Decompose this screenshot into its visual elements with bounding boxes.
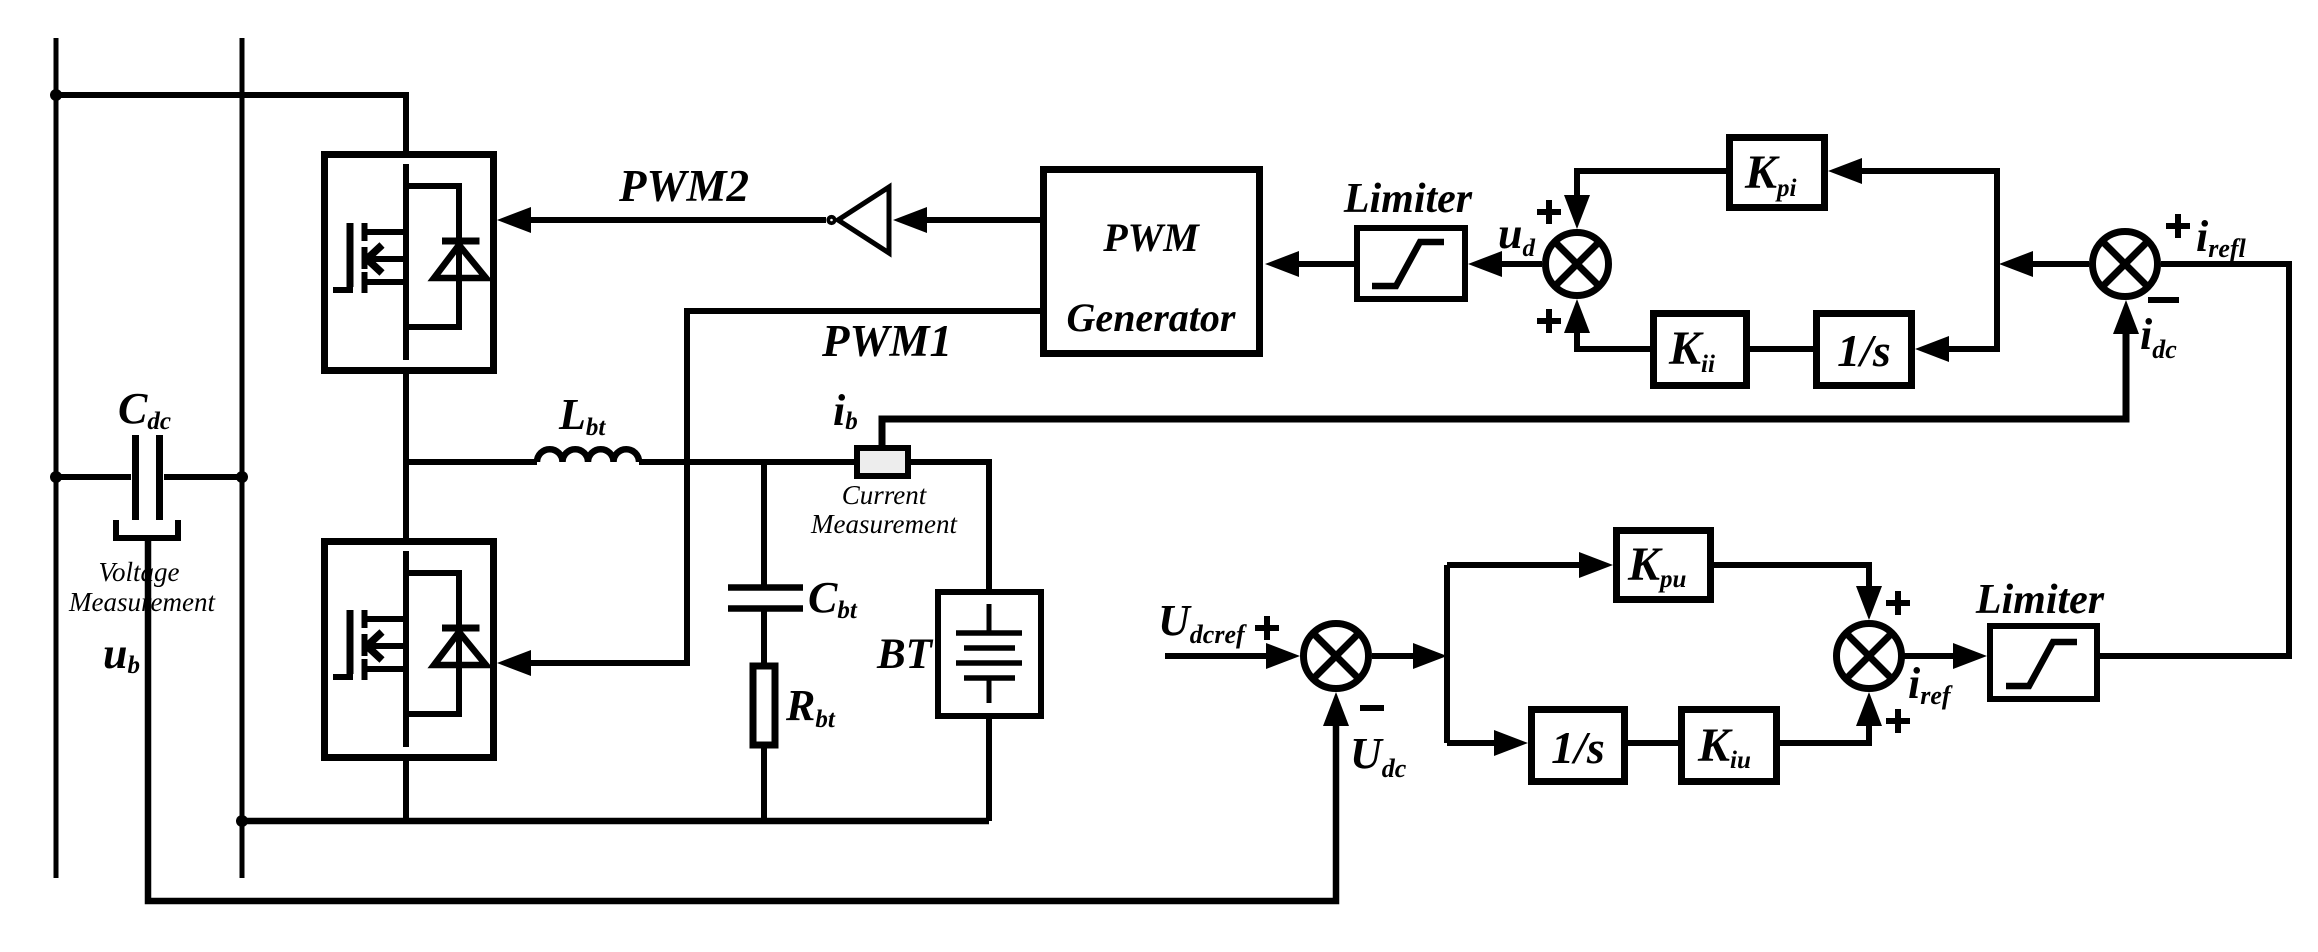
arrow iref into limiter2: [1953, 643, 1987, 669]
label minus S3: [1360, 705, 1384, 711]
wire Kiu to S4 bottom: [1780, 726, 1869, 743]
wire Udcref input: [1165, 653, 1266, 659]
wire Q1 source to Q2 drain: [403, 374, 409, 538]
svg-text:Limiter: Limiter: [1343, 176, 1473, 222]
wire Rbt to rail: [761, 748, 767, 821]
limiter1 saturation curve: [1372, 242, 1444, 286]
wire sensor to battery: [911, 462, 989, 589]
arrow into S1 top: [1564, 195, 1590, 229]
wire ib sensor tap: [882, 334, 2126, 445]
svg-text:Generator: Generator: [1067, 295, 1236, 340]
svg-text:BT: BT: [876, 631, 934, 678]
resistor Rbt: [753, 666, 775, 745]
svg-text:Measurement: Measurement: [810, 509, 958, 539]
svg-text:Measurement: Measurement: [68, 587, 216, 617]
voltage measurement probe symbol: [116, 520, 178, 538]
wire PWM1 from generator to Q2 gate: [531, 311, 1040, 663]
wire DC bus negative (second vertical): [240, 38, 245, 878]
arrow into inverter: [893, 207, 927, 233]
arrow S2 output into junction: [1999, 251, 2033, 277]
current measurement sensor ib: [857, 448, 908, 476]
arrow idc into summing junction S2: [2113, 300, 2139, 334]
wire S3 output to branch: [1372, 653, 1413, 659]
svg-text:1/s: 1/s: [1551, 722, 1605, 773]
wire PWM2 line: [531, 217, 826, 223]
inverter bubble: [828, 217, 834, 223]
wire irefl from limiter2 up to S2: [2100, 264, 2289, 656]
arrow S3 output: [1413, 643, 1447, 669]
label plus S4 top: [1886, 591, 1910, 615]
node junction dot Cdc right: [236, 471, 248, 483]
wire summing S1 to limiter1: [1502, 261, 1542, 267]
wire Kpi output into S1 top: [1577, 171, 1726, 195]
wire top rail to Q1 drain: [56, 95, 406, 151]
summing junction S4: [1837, 624, 1902, 689]
wire ub measurement to Udc feedback: [148, 538, 1336, 901]
wire S4 output to limiter2: [1902, 653, 1953, 659]
transistor Q1 (upper MOSFET with body diode): [325, 155, 494, 371]
wire feedback vertical to Kpi: [1862, 171, 1997, 349]
wire bottom branch to 1/s: [1447, 740, 1494, 746]
svg-text:Voltage: Voltage: [99, 557, 180, 587]
arrow PWM2 into Q1: [497, 207, 531, 233]
label plus S1 top: [1537, 200, 1561, 224]
inductor Lbt: [537, 449, 639, 462]
arrow into 1/s (voltage loop): [1494, 730, 1528, 756]
inverter triangle: [838, 187, 889, 253]
block Kpi: [1730, 138, 1825, 208]
arrow Udcref into S3: [1266, 643, 1300, 669]
wire Kii output into S1 bottom: [1577, 333, 1650, 349]
block Kiu: [1682, 710, 1777, 782]
wire battery to rail: [986, 719, 992, 821]
wire bottom rail: [242, 818, 989, 825]
wire inductor to current sensor: [639, 459, 854, 465]
block 1/s (voltage loop): [1532, 710, 1625, 782]
arrow into Kpi: [1828, 158, 1862, 184]
block Limiter (voltage loop): [1990, 626, 2097, 699]
label plus S4 bottom: [1886, 709, 1910, 733]
arrow into Kpu: [1579, 552, 1613, 578]
block Kpu: [1617, 531, 1711, 600]
label plus S1 bottom: [1537, 309, 1561, 333]
summing junction S1: [1546, 233, 1609, 296]
arrow into 1/s: [1915, 336, 1949, 362]
node junction dot bus A top: [50, 89, 62, 101]
capacitor Cdc: [56, 435, 242, 520]
wire PWM generator to inverter: [927, 217, 1040, 223]
wire S2 output to junction: [2033, 261, 2089, 267]
wire midpoint node to inductor: [406, 459, 537, 465]
svg-text:PWM2: PWM2: [618, 161, 749, 211]
label minus S2: [2148, 297, 2179, 303]
svg-text:PWM1: PWM1: [821, 316, 952, 366]
svg-text:Limiter: Limiter: [1975, 577, 2105, 623]
wire top branch to Kpu: [1447, 562, 1579, 568]
summing junction S3: [1304, 624, 1369, 689]
summing junction S2: [2093, 232, 2158, 297]
arrow Udc into S3 bottom: [1323, 692, 1349, 726]
capacitor Cbt: [728, 462, 803, 663]
node junction dot Cdc left: [50, 471, 62, 483]
svg-text:PWM: PWM: [1102, 215, 1200, 260]
arrow into PWM generator: [1265, 251, 1299, 277]
wire limiter1 to PWM generator: [1299, 261, 1354, 267]
label plus irefl: [2166, 214, 2190, 238]
block Kii: [1654, 314, 1747, 386]
wire DC bus positive (left vertical): [54, 38, 59, 878]
arrow into S1 bottom: [1564, 299, 1590, 333]
battery BT: [938, 592, 1041, 716]
wire Kpu to S4 top: [1714, 565, 1869, 586]
block 1/s (current loop): [1817, 314, 1912, 386]
limiter2 saturation curve: [2006, 642, 2077, 686]
arrow PWM1 into Q2: [497, 650, 531, 676]
wire 1/s to Kiu: [1628, 740, 1678, 746]
node junction dot rail at bus B: [236, 815, 248, 827]
block Limiter (current loop): [1357, 228, 1465, 299]
wire Kii to 1/s: [1750, 346, 1813, 352]
arrow into S4 bottom: [1856, 692, 1882, 726]
wire branch vertical: [1444, 565, 1450, 743]
svg-text:Current: Current: [842, 480, 928, 510]
label plus Udcref: [1255, 616, 1279, 640]
wire Q2 source to rail: [403, 761, 409, 821]
transistor Q2 (lower MOSFET with body diode): [325, 542, 494, 758]
block PWM Generator: [1044, 170, 1260, 354]
svg-text:1/s: 1/s: [1837, 325, 1891, 376]
arrow into S4 top: [1856, 586, 1882, 620]
arrow ud into limiter1: [1468, 251, 1502, 277]
